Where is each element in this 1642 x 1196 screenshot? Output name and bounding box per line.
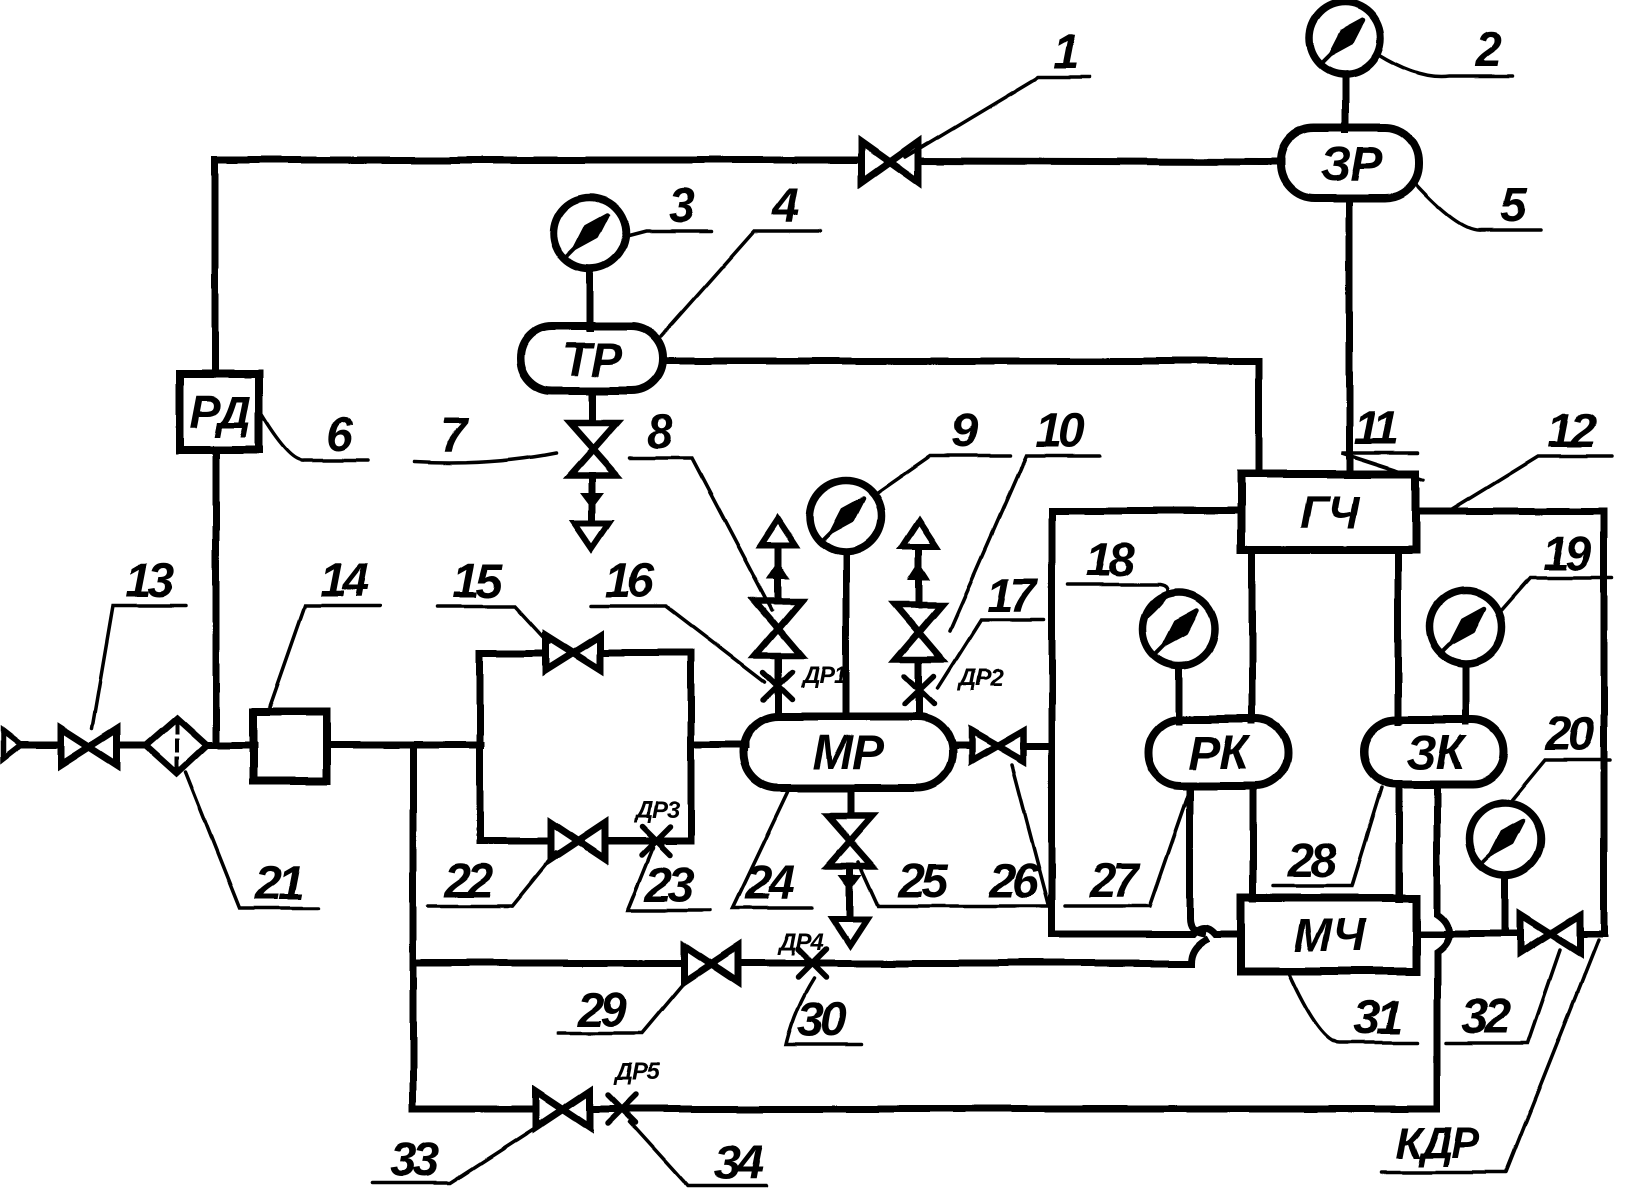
wire: ЗР down to ГЧ	[1346, 198, 1353, 474]
svg-text:18: 18	[1085, 534, 1135, 587]
leader label 33	[372, 1126, 538, 1183]
working chamber РК (27)	[1148, 719, 1288, 786]
wire: inlet to valve 13	[20, 742, 62, 749]
wire: top supply line from riser corner to valve 1	[215, 157, 863, 164]
throttle ДР3	[642, 827, 670, 855]
wire: МР right to valve 26	[952, 743, 972, 750]
valve 25	[828, 816, 872, 866]
svg-text:ЗК: ЗК	[1406, 727, 1469, 780]
leader label 11	[1341, 453, 1424, 480]
svg-text:31: 31	[1354, 992, 1402, 1045]
wire: ГЧ down to РК	[1249, 550, 1256, 721]
pneumatic relay ЗР (5)	[1280, 128, 1419, 198]
svg-text:1: 1	[1053, 26, 1078, 79]
leader label 23	[628, 848, 710, 910]
block 12 frame: top-right edge	[1416, 508, 1604, 515]
svg-text:6: 6	[327, 408, 354, 461]
gauge 3	[554, 197, 626, 269]
bypass loop right edge	[688, 653, 695, 841]
leader label 25 and 26 shared underline	[858, 862, 1049, 906]
svg-text:34: 34	[714, 1137, 763, 1190]
wire: block 12 bottom-left feed into МЧ	[1052, 928, 1241, 935]
svg-text:27: 27	[1088, 855, 1141, 908]
filter 21	[146, 718, 207, 773]
gauge 18	[1143, 593, 1215, 665]
leader label 6	[260, 412, 368, 460]
wire: gauge 20 drop to output line	[1502, 875, 1509, 934]
svg-text:28: 28	[1286, 835, 1337, 888]
valve 8	[755, 601, 801, 655]
valve 29	[684, 946, 738, 982]
unit 14	[253, 712, 327, 781]
gauge 2	[1309, 2, 1381, 74]
wire: gauge 3 to ТР	[587, 269, 594, 328]
svg-text:22: 22	[443, 855, 494, 908]
leader label 32	[1446, 950, 1560, 1043]
svg-text:21: 21	[254, 857, 303, 910]
throttle ДР4	[798, 949, 826, 977]
svg-text:8: 8	[647, 406, 674, 459]
valve 10	[896, 605, 942, 659]
svg-text:МР: МР	[813, 727, 885, 780]
svg-text:25: 25	[897, 855, 949, 908]
right vent arrow	[902, 521, 936, 579]
leader label 15	[438, 606, 549, 643]
gauge 9	[810, 480, 882, 552]
svg-text:29: 29	[576, 984, 627, 1037]
leader label 7	[415, 453, 556, 463]
left vent arrow	[761, 519, 795, 577]
throttle ДР5	[608, 1095, 636, 1123]
leader label 30	[786, 978, 862, 1045]
leader label 10	[950, 456, 1100, 630]
wire: valve 8 to left vent arrow	[775, 546, 782, 601]
wire: top supply line from valve 1 to ЗР	[917, 161, 1281, 162]
svg-text:2: 2	[1475, 24, 1503, 77]
leader label 17	[938, 620, 1044, 688]
leader label 27	[1065, 790, 1190, 906]
wire: filter to unit 14, junction with РД riser	[207, 742, 254, 749]
valve 7	[570, 423, 616, 475]
wire: gauge 2 to ЗР	[1342, 74, 1349, 130]
svg-text:32: 32	[1461, 991, 1511, 1044]
valve 32	[1520, 915, 1580, 953]
svg-text:ДР5: ДР5	[613, 1059, 660, 1086]
svg-text:23: 23	[644, 859, 695, 912]
leader label 5	[1415, 183, 1541, 230]
wire: МР top to left vent branch (ДР1 / valve 8)	[775, 656, 782, 717]
svg-text:14: 14	[319, 555, 368, 608]
svg-text:26: 26	[988, 855, 1039, 908]
leader label 31	[1288, 972, 1418, 1043]
leader label 21	[186, 772, 318, 908]
svg-text:9: 9	[952, 405, 979, 458]
bypass loop left edge	[477, 653, 484, 841]
leader label 13	[92, 606, 186, 729]
svg-text:ГЧ: ГЧ	[1300, 486, 1361, 538]
svg-text:ДР1: ДР1	[800, 662, 846, 689]
wire: valve 7 to vent	[589, 475, 596, 524]
svg-text:24: 24	[744, 857, 794, 910]
wire: ЗК bottom right drop down across to bottom line (КДР channel)	[1437, 784, 1449, 1109]
wire: left riser from top line to РД	[212, 160, 219, 374]
svg-text:11: 11	[1353, 402, 1397, 455]
gauge 19	[1430, 591, 1502, 663]
leader label 28	[1273, 788, 1382, 886]
reference chamber ЗК (28)	[1364, 720, 1504, 784]
inlet arrow	[3, 731, 21, 759]
valve 15	[546, 636, 600, 670]
wire: МЧ output to valve 32	[1416, 931, 1521, 938]
functional part ГЧ (11)	[1241, 474, 1416, 550]
wire: gauge 19 to ЗК	[1463, 664, 1470, 722]
wire: РК bottom right drop to МЧ top	[1250, 786, 1257, 899]
bottom vent arrow below valve 25	[833, 876, 867, 945]
leader label 24	[733, 792, 812, 908]
throttle ДР2	[905, 676, 934, 704]
leader label 9	[877, 456, 1010, 493]
svg-text:ТР: ТР	[562, 334, 623, 387]
svg-text:20: 20	[1544, 708, 1595, 761]
block 12 frame: right edge	[1601, 511, 1608, 934]
svg-text:3: 3	[669, 180, 696, 233]
leader label 12	[1452, 456, 1612, 509]
svg-text:ЗР: ЗР	[1321, 138, 1384, 191]
svg-text:МЧ: МЧ	[1294, 909, 1367, 961]
leader label 29	[558, 983, 684, 1033]
leader label 16	[590, 606, 765, 682]
throttle ДР1	[763, 672, 792, 700]
valve 1	[862, 142, 918, 182]
svg-text:33: 33	[390, 1134, 440, 1187]
wire: valve 10 to right vent arrow	[916, 548, 923, 605]
wire: РД down to main line	[213, 450, 220, 744]
wire: ДР4 line riser joining МЧ feed	[1191, 940, 1205, 963]
valve 13	[61, 729, 117, 765]
bypass loop bottom edge	[480, 838, 691, 845]
vent arrow below valve 7	[575, 494, 609, 548]
leader label 8	[630, 458, 772, 610]
wire: gauge 9 to МР top	[843, 552, 850, 717]
leader label 14	[268, 606, 380, 712]
leader label 22	[428, 852, 556, 906]
measuring part МЧ (31)	[1241, 898, 1416, 971]
svg-text:4: 4	[772, 180, 799, 233]
svg-text:5: 5	[1501, 179, 1529, 232]
svg-text:КДР: КДР	[1396, 1119, 1481, 1168]
valve 26	[971, 731, 1023, 761]
wire: lower control line with valve 29 and ДР4	[413, 960, 685, 967]
valve 22	[551, 823, 605, 859]
leader label 18	[1068, 585, 1167, 618]
wire: valve 26 to block 12 left edge	[1023, 743, 1052, 750]
wire: ЗК bottom left drop to МЧ top	[1396, 784, 1403, 899]
leader label 1	[905, 77, 1090, 157]
wire: valve 25 to bottom vent	[847, 866, 854, 920]
svg-text:10: 10	[1035, 405, 1085, 458]
leader label 26	[1012, 765, 1049, 906]
temperature regulator ТР (4)	[520, 326, 663, 391]
block 12 frame: left edge	[1049, 511, 1056, 934]
wire: МР top to right vent branch (ДР2 / valve 10)	[916, 660, 923, 717]
svg-text:16: 16	[604, 555, 654, 608]
svg-text:РК: РК	[1188, 727, 1252, 780]
wire: valve 13 to filter	[117, 742, 148, 749]
wire: loop to МР	[691, 742, 745, 749]
wire: ТР output line to ГЧ riser	[663, 361, 1259, 474]
svg-text:ДР2: ДР2	[957, 665, 1004, 692]
wire: МР bottom to valve 25	[847, 788, 854, 817]
svg-text:17: 17	[987, 570, 1039, 623]
svg-text:13: 13	[125, 555, 175, 608]
valve 33	[536, 1091, 590, 1127]
svg-text:12: 12	[1547, 405, 1597, 458]
wire: valve 32 to block frame corner	[1580, 931, 1604, 938]
leader label 2	[1378, 54, 1513, 77]
svg-text:19: 19	[1542, 528, 1592, 581]
pressure regulator РД (6)	[180, 374, 259, 450]
svg-text:ДР4: ДР4	[777, 929, 823, 956]
wire: ГЧ down to ЗК	[1395, 550, 1402, 722]
leader label 20	[1512, 760, 1610, 800]
manometric regulator МР (24)	[743, 717, 952, 788]
wire: unit 14 to bypass loop	[327, 742, 481, 749]
leader label 34	[630, 1122, 766, 1186]
svg-text:7: 7	[441, 410, 470, 463]
leader label КДР	[1381, 940, 1598, 1172]
wire: ТР down to valve 7	[589, 391, 596, 424]
leader label 19	[1500, 578, 1612, 612]
wire: gauge 18 to РК	[1176, 666, 1183, 721]
block 12 frame: top-left edge	[1052, 508, 1241, 515]
wire: РК bottom left drop to МЧ feed line	[1190, 786, 1202, 933]
svg-text:15: 15	[452, 555, 503, 608]
leader label 4	[661, 231, 820, 336]
svg-text:30: 30	[797, 994, 847, 1047]
gauge 20	[1469, 803, 1541, 875]
wire: bottom line with valve 33 and ДР5	[413, 1106, 537, 1113]
wire: branch junction down to lower lines	[410, 745, 417, 1109]
svg-text:ДР3: ДР3	[633, 797, 680, 824]
svg-text:РД: РД	[190, 386, 251, 438]
leader label 3	[627, 231, 712, 236]
bypass loop top edge	[480, 650, 691, 657]
